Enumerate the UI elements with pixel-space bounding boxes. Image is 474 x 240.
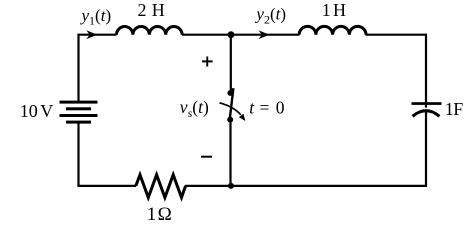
svg-text:10V: 10V (20, 101, 53, 121)
svg-text:1F: 1F (445, 99, 464, 119)
svg-text:y2(t): y2(t) (254, 5, 286, 27)
svg-text:1H: 1H (322, 0, 346, 20)
svg-text:y1(t): y1(t) (80, 6, 112, 28)
svg-text:2H: 2H (138, 0, 165, 20)
svg-text:1Ω: 1Ω (147, 204, 172, 225)
svg-text:vs(t): vs(t) (180, 97, 209, 120)
svg-text:t=0: t=0 (249, 98, 285, 118)
